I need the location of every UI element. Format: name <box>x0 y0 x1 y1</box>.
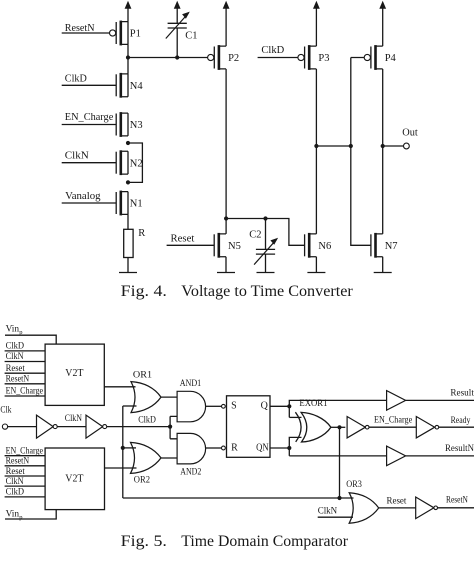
wire feedback bottom run to OR3 <box>123 497 354 499</box>
node QN branch <box>287 446 291 450</box>
caption Fig.4 <box>121 283 354 300</box>
wire ClkD to AND1/AND2 <box>170 416 177 438</box>
label Reset (net) <box>387 496 407 506</box>
label C2 <box>249 230 261 241</box>
wire EN_Charge to U2 <box>369 426 416 428</box>
svg-text:Q: Q <box>261 401 269 412</box>
svg-text:N4: N4 <box>130 81 144 92</box>
svg-text:Reset: Reset <box>387 496 407 506</box>
label N6 <box>318 241 331 252</box>
svg-text:p: p <box>19 514 22 521</box>
input label Reset (V2T1) <box>6 364 26 374</box>
svg-text:N5: N5 <box>228 241 241 252</box>
svg-text:C2: C2 <box>249 230 261 241</box>
inverter U3 (Reset to ResetN) <box>416 497 434 519</box>
wire Q stub into EXOR1 <box>289 416 301 418</box>
buffer Result <box>387 391 406 411</box>
power rail arrow above P3 <box>313 1 320 46</box>
wire Reset to N5 gate <box>167 244 215 246</box>
svg-text:Reset: Reset <box>6 467 26 477</box>
svg-text:ClkD: ClkD <box>261 45 284 56</box>
input label Vinp (top) <box>6 324 23 336</box>
label AND2 <box>180 468 201 478</box>
node P3/N6 output <box>314 144 318 148</box>
wire OR2 upper input stub <box>123 447 136 449</box>
wire ClkN to N2 gate <box>62 162 116 164</box>
bubble R input <box>222 446 226 450</box>
svg-text:EN_Charge: EN_Charge <box>374 415 412 425</box>
wire ClkN into OR3 <box>318 516 353 518</box>
transistor N7 <box>371 233 383 258</box>
bubble S input <box>222 404 226 408</box>
svg-text:Vanalog: Vanalog <box>65 191 101 202</box>
node C2 tap <box>263 216 267 220</box>
wire Vinp into V2T1 <box>5 335 56 344</box>
svg-text:P2: P2 <box>228 53 239 64</box>
svg-text:N7: N7 <box>385 241 398 252</box>
label OR2 <box>134 475 150 485</box>
wire Reset into V2T2 <box>5 475 46 477</box>
bubble U1 <box>365 425 369 429</box>
node P2/N5 output <box>224 216 228 220</box>
wire output row to N6 gate <box>226 219 305 246</box>
resistor R <box>124 214 133 257</box>
wire Vanalog to N1 gate <box>62 202 116 204</box>
svg-text:Vin: Vin <box>6 509 20 519</box>
svg-text:Time Domain Comparator: Time Domain Comparator <box>181 533 349 550</box>
svg-text:N3: N3 <box>130 120 143 131</box>
wire QN to ResultN buffer <box>289 448 386 456</box>
svg-text:OR2: OR2 <box>134 475 150 485</box>
wire EN_Charge into V2T1 <box>5 395 46 397</box>
power rail arrow above P4 <box>379 1 386 46</box>
svg-text:N2: N2 <box>130 158 143 169</box>
svg-text:Fig. 4.: Fig. 4. <box>121 283 167 300</box>
wire Vinp into V2T2 <box>5 510 56 519</box>
V2T block 1 <box>45 344 104 405</box>
node under C1 <box>175 55 179 59</box>
pin label QN <box>256 442 269 453</box>
transistor N5 <box>214 233 226 258</box>
wire ResetN to P1 gate <box>62 32 110 34</box>
svg-text:Reset: Reset <box>171 234 195 245</box>
input label ClkN (V2T2) <box>6 477 24 487</box>
wire P2 drain to N5 drain <box>225 69 227 234</box>
wire stack P1-N4-N3-N2-N1 <box>127 22 129 215</box>
wire P4 gate to cross-couple <box>351 58 371 246</box>
transistor N6 <box>305 233 317 258</box>
svg-text:EXOR1: EXOR1 <box>299 399 327 409</box>
svg-text:S: S <box>231 401 237 412</box>
node feedback to OR2 <box>121 446 125 450</box>
label OR3 <box>346 480 362 490</box>
wire EN_Charge to N3 gate <box>62 124 116 126</box>
wire ResultN output <box>406 455 474 457</box>
wire N2 drain-source bypass <box>128 143 142 182</box>
svg-text:Ready: Ready <box>451 416 471 426</box>
node ClkD branch <box>168 425 172 429</box>
svg-text:P3: P3 <box>318 53 329 64</box>
wire QN output <box>270 447 289 449</box>
svg-text:QN: QN <box>256 442 269 453</box>
svg-text:OR1: OR1 <box>133 371 152 381</box>
caption Fig.5 <box>121 533 349 550</box>
label Clk <box>0 405 11 415</box>
label OR1 <box>133 371 152 381</box>
svg-text:AND2: AND2 <box>180 468 201 478</box>
and-gate AND1 <box>177 391 205 422</box>
wire P3 drain to N6 drain <box>315 69 317 234</box>
wire EN_Charge feedback down <box>339 427 341 498</box>
svg-text:P4: P4 <box>385 53 397 64</box>
svg-text:C1: C1 <box>185 30 197 41</box>
label P2 <box>228 53 239 64</box>
label Ready <box>451 416 471 426</box>
label N4 <box>130 81 144 92</box>
transistor N4 <box>116 73 128 98</box>
svg-text:Fig. 5.: Fig. 5. <box>121 533 167 550</box>
transistor P1 <box>110 21 129 46</box>
svg-text:ClkN: ClkN <box>6 352 24 362</box>
input label Reset <box>171 234 195 245</box>
SR latch box <box>227 396 271 458</box>
label C1 <box>185 30 197 41</box>
wire EN_Charge into V2T2 <box>5 455 46 457</box>
input label ClkD (V2T2) <box>6 488 25 498</box>
node EXOR1 output <box>337 425 341 429</box>
capacitor C1 <box>166 12 190 58</box>
label N3 <box>130 120 143 131</box>
ground below N7 <box>374 257 392 273</box>
inverter U1 after EXOR1 <box>347 417 365 438</box>
V2T block 2 <box>45 448 104 510</box>
wire OR1 lower input stub <box>123 405 137 407</box>
input label Vinp (bottom) <box>6 509 23 521</box>
inverter I2 (ClkN to ClkD) <box>86 415 103 438</box>
wire OR2 to AND2 <box>161 457 177 459</box>
wire Reset into V2T1 <box>5 372 46 374</box>
wire OR3 to inverter <box>379 507 416 509</box>
xor-gate EXOR1 body <box>301 412 331 442</box>
svg-text:Vin: Vin <box>6 324 20 334</box>
wire Result output <box>406 399 474 401</box>
svg-text:ClkD: ClkD <box>6 488 25 498</box>
node P4 gate column on out wire <box>349 144 353 148</box>
bubble I2 <box>103 425 107 429</box>
svg-text:EN_Charge: EN_Charge <box>6 446 43 456</box>
bubble U2 <box>435 425 439 429</box>
label ClkN (OR3 input) <box>318 506 338 516</box>
svg-text:ClkD: ClkD <box>6 342 25 352</box>
label P4 <box>385 53 397 64</box>
bubble U3 <box>434 506 438 510</box>
bubble I1 <box>53 425 57 429</box>
or-gate OR3 <box>349 493 379 524</box>
wire V2T2 output to OR2 <box>105 467 137 469</box>
wire ClkD to N4 gate <box>62 84 116 86</box>
label EXOR1 <box>299 399 327 409</box>
label N7 <box>385 241 398 252</box>
inverter U2 before Ready <box>416 417 434 438</box>
power rail arrow above P2 <box>223 1 230 46</box>
svg-text:ResultN: ResultN <box>445 444 474 454</box>
node N3/N2 <box>126 141 130 145</box>
wire ResetN into V2T1 <box>5 383 46 385</box>
wire EN_Charge feedback vertical <box>122 406 124 498</box>
input label ResetN <box>65 23 95 34</box>
xor-gate EXOR1 input arc <box>295 412 301 442</box>
label ClkN (net) <box>65 414 82 424</box>
svg-text:ClkN: ClkN <box>318 506 338 516</box>
svg-text:ClkN: ClkN <box>65 414 82 424</box>
svg-text:ResetN: ResetN <box>446 496 468 506</box>
node N2/N1 <box>126 180 130 184</box>
input label EN_Charge (V2T2) <box>6 446 43 456</box>
input label ResetN (V2T2) <box>6 457 30 467</box>
wire ClkD into V2T2 <box>5 496 46 498</box>
terminal Out <box>404 143 410 149</box>
input label Vanalog <box>65 191 101 202</box>
wire Q to Result buffer <box>289 400 386 417</box>
transistor P3 <box>298 45 317 70</box>
input label EN_Charge (V2T1) <box>6 387 43 397</box>
label ResetN (net) <box>446 496 468 506</box>
svg-text:N6: N6 <box>318 241 331 252</box>
buffer ResultN <box>387 446 406 466</box>
input label ClkD <box>65 74 87 85</box>
power rail arrow above C1 <box>174 1 181 24</box>
label ResultN <box>445 444 474 454</box>
wire AND2 to R input <box>206 447 222 449</box>
label P1 <box>130 29 141 40</box>
node P1/N4 drain <box>126 45 130 74</box>
wire inverter output to P4 column <box>316 145 350 147</box>
svg-text:Out: Out <box>402 128 418 139</box>
ground below N5 <box>217 257 235 273</box>
wire to Out terminal <box>383 145 404 147</box>
capacitor C2 <box>254 219 278 265</box>
transistor P2 <box>208 45 227 70</box>
svg-text:V2T: V2T <box>65 474 84 485</box>
transistor P4 <box>364 45 383 70</box>
wire ClkD run <box>107 426 170 428</box>
label V2T (bottom block) <box>65 474 84 485</box>
input label ResetN (V2T1) <box>6 374 30 384</box>
svg-text:EN_Charge: EN_Charge <box>6 387 43 397</box>
svg-text:AND1: AND1 <box>180 379 202 389</box>
transistor N2 <box>116 150 128 175</box>
wire AND1 to S input <box>206 405 222 407</box>
svg-text:ResetN: ResetN <box>6 457 30 467</box>
label N2 <box>130 158 143 169</box>
svg-text:ResetN: ResetN <box>6 374 30 384</box>
transistor N3 <box>116 112 128 137</box>
node feedback joins OR3 run <box>337 496 341 500</box>
svg-text:R: R <box>231 442 238 453</box>
input label EN_Charge <box>65 112 114 123</box>
label N1 <box>130 199 143 210</box>
ground below N6 <box>307 257 325 273</box>
svg-text:N1: N1 <box>130 199 143 210</box>
label AND1 <box>180 379 202 389</box>
wire ClkD into V2T1 <box>5 350 46 352</box>
or-gate OR2 <box>131 442 162 473</box>
wire ClkN into V2T2 <box>5 485 46 487</box>
label R <box>138 228 145 239</box>
input label ClkN (V2T1) <box>6 352 24 362</box>
wire ClkD to P3 gate <box>258 57 298 59</box>
wire Ready output <box>439 426 474 428</box>
wire output node to P2 gate <box>128 57 208 59</box>
label EN_Charge (net) <box>374 415 412 425</box>
label Out <box>402 128 418 139</box>
power rail arrow above P1 <box>125 1 132 22</box>
ground below C2 <box>257 254 275 272</box>
inverter I1 (Clk to ClkN) <box>37 415 54 438</box>
svg-text:R: R <box>138 228 145 239</box>
label Result <box>450 389 474 399</box>
wire ClkN <box>57 426 86 428</box>
label P3 <box>318 53 329 64</box>
svg-text:ClkD: ClkD <box>138 415 156 425</box>
svg-text:ClkN: ClkN <box>65 151 89 162</box>
terminal Clk <box>2 424 7 429</box>
wire EXOR1 output <box>331 426 345 428</box>
svg-text:V2T: V2T <box>65 368 84 379</box>
svg-text:OR3: OR3 <box>346 480 362 490</box>
label ClkD at P3 <box>261 45 284 56</box>
svg-text:Result: Result <box>450 389 474 399</box>
input label Reset (V2T2) <box>6 467 26 477</box>
node Q branch <box>287 404 291 408</box>
input label ClkN <box>65 151 89 162</box>
svg-text:Clk: Clk <box>0 405 11 415</box>
and-gate AND2 <box>177 433 205 464</box>
pin label Q <box>261 401 269 412</box>
svg-text:Voltage to Time Converter: Voltage to Time Converter <box>181 283 353 300</box>
pin label S <box>231 401 237 412</box>
svg-text:P1: P1 <box>130 29 141 40</box>
pin label R <box>231 442 238 453</box>
wire ResetN output <box>438 507 474 509</box>
svg-text:ClkD: ClkD <box>65 74 87 85</box>
wire OR1 to AND1 <box>161 396 177 398</box>
or-gate OR1 <box>131 382 161 413</box>
label V2T (top block) <box>65 368 84 379</box>
ground below R <box>119 258 137 273</box>
wire ClkN into V2T1 <box>5 361 46 363</box>
transistor N1 <box>116 191 128 216</box>
label ClkD (net) <box>138 415 156 425</box>
node P4/N7 output <box>381 144 385 148</box>
wire P4 drain to N7 drain <box>382 69 384 234</box>
wire Clk to inverter <box>8 426 37 428</box>
wire V2T1 output to OR1 <box>104 386 135 388</box>
input label ClkD (V2T1) <box>6 342 25 352</box>
svg-text:Reset: Reset <box>6 364 26 374</box>
wire Q output <box>270 405 289 407</box>
svg-text:EN_Charge: EN_Charge <box>65 112 114 123</box>
svg-text:ClkN: ClkN <box>6 477 24 487</box>
label N5 <box>228 241 241 252</box>
wire ResetN into V2T2 <box>5 465 46 467</box>
wire QN up to EXOR1 <box>289 437 301 448</box>
